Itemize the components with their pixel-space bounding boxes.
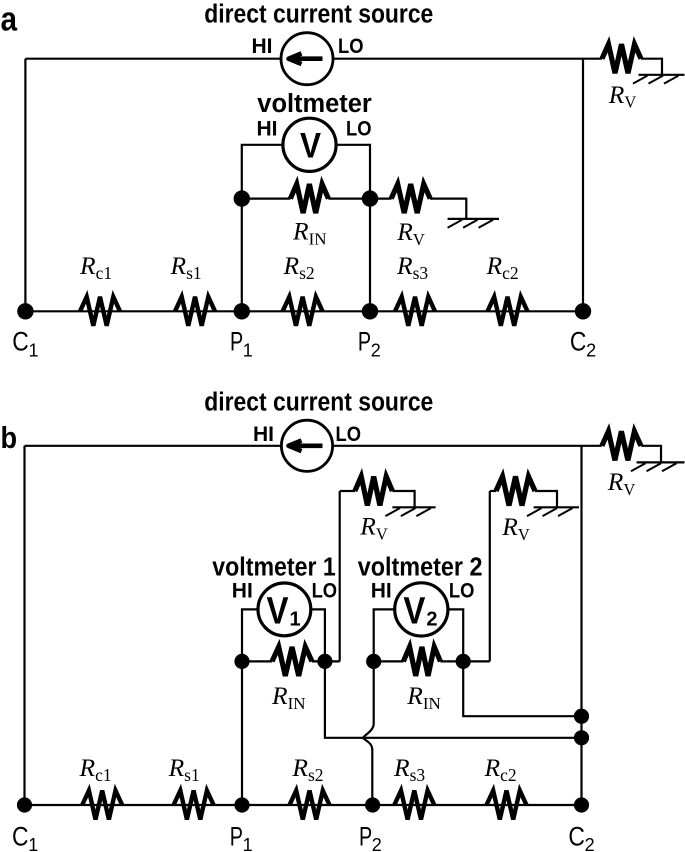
- wire: left vertical C1 (a): [24, 59, 26, 312]
- svg-text:V: V: [300, 127, 322, 166]
- svg-text:HI: HI: [257, 118, 278, 141]
- node V2 HI dot: [366, 654, 381, 669]
- voltmeter U2 (a): [283, 118, 336, 171]
- svg-text:2: 2: [371, 341, 381, 361]
- wire: V1 LO lead: [310, 609, 325, 661]
- svg-text:HI: HI: [252, 35, 273, 58]
- wire: voltmeter HI lead (a): [242, 145, 284, 199]
- svg-text:HI: HI: [371, 579, 392, 602]
- resistor RIN (a): [290, 184, 328, 213]
- svg-text:HI: HI: [253, 423, 274, 446]
- wire: right vertical C2 (b): [580, 446, 582, 805]
- current source U1 (a) with left arrow: [281, 33, 333, 85]
- wire: RV1 vertical (b): [339, 491, 341, 661]
- wire: P2 vertical (a): [369, 199, 371, 312]
- wire: V2 HI down to P2 with crossover jog: [363, 661, 374, 805]
- node C1 (a): [17, 303, 33, 319]
- svg-text:1: 1: [28, 835, 38, 852]
- svg-text:2: 2: [426, 609, 437, 631]
- node P2 (a): [362, 303, 378, 319]
- wire: top rail to RV (a): [583, 58, 602, 60]
- svg-text:2: 2: [586, 341, 596, 361]
- node V1 HI dot: [234, 654, 249, 669]
- wire: V2 LO lead: [446, 609, 463, 661]
- svg-text:a: a: [1, 1, 18, 39]
- wire: top rail to RV (b): [582, 445, 602, 447]
- wire: voltmeter LO lead (a): [336, 145, 370, 199]
- resistor RV mid (a): [391, 184, 430, 213]
- svg-text:LO: LO: [346, 118, 372, 141]
- wire: bottom rail (a): [25, 310, 583, 312]
- wire: RV2 to ground (b): [535, 491, 557, 507]
- wire: RV to ground (a): [430, 199, 466, 219]
- voltmeter V2 circle: [395, 583, 448, 636]
- resistor Rc2 (a): [488, 297, 528, 326]
- resistor Rs3 (b): [394, 791, 434, 820]
- node P1 (b): [234, 797, 249, 812]
- resistor Rs3 (a): [395, 297, 435, 326]
- svg-text:1: 1: [243, 835, 253, 852]
- wire: top rail (a): [25, 58, 583, 60]
- resistor RV2 (b): [496, 477, 535, 506]
- wire: RV top to ground (a): [641, 59, 662, 75]
- node junction dot upper right column: [574, 709, 589, 724]
- svg-text:LO: LO: [449, 579, 475, 602]
- svg-text:voltmeter: voltmeter: [257, 90, 372, 118]
- ground (RV1 b): [385, 507, 435, 516]
- wire: RV top to ground (b): [641, 446, 661, 463]
- wire: RIN1 right + stub to RV1: [312, 660, 340, 662]
- svg-text:2: 2: [585, 835, 595, 852]
- resistor Rc1 (b): [82, 791, 122, 820]
- node C2 (b): [574, 797, 589, 812]
- wire: P1 vertical (a): [241, 199, 243, 312]
- svg-text:voltmeter 1: voltmeter 1: [212, 554, 335, 582]
- svg-text:b: b: [1, 420, 18, 455]
- node P2 (b): [365, 797, 380, 812]
- resistor Rs1 (b): [174, 791, 214, 820]
- resistor Rc2 (b): [487, 791, 527, 820]
- wire: RV1 stub (b): [340, 490, 355, 492]
- svg-text:1: 1: [243, 341, 253, 361]
- resistor RV1 (b): [355, 477, 393, 506]
- node junction dot lower right column: [574, 730, 589, 745]
- svg-text:V: V: [267, 590, 290, 632]
- svg-text:C: C: [570, 327, 587, 357]
- svg-text:C: C: [12, 327, 29, 357]
- svg-text:direct current source: direct current source: [204, 388, 433, 416]
- svg-text:C: C: [12, 821, 29, 851]
- ground (top right a): [633, 75, 685, 84]
- svg-text:LO: LO: [336, 423, 362, 446]
- node C2 (a): [575, 303, 591, 319]
- wire: RV2 vertical (b): [489, 491, 491, 661]
- wire: V2 LO down and right to C2 column: [463, 661, 581, 716]
- svg-text:P: P: [230, 821, 243, 851]
- ground (top right b): [631, 462, 685, 471]
- node C1 (b): [17, 797, 32, 812]
- wire: left vertical C1 (b): [23, 446, 25, 805]
- wire: V1 LO down and right to C2 column: [325, 661, 582, 737]
- svg-text:HI: HI: [232, 579, 253, 602]
- node P2 junction dot (a): [362, 190, 378, 206]
- wire: V2 HI lead: [374, 609, 396, 661]
- svg-text:voltmeter 2: voltmeter 2: [358, 554, 483, 582]
- resistor Rs2 (a): [283, 297, 323, 326]
- wire: V1 HI to P1: [241, 661, 243, 805]
- wire: RIN row right (a): [328, 198, 370, 200]
- wire: RIN2 right + stub to RV2: [440, 660, 489, 662]
- wire: P2 to RV (a): [370, 198, 392, 200]
- svg-text:1: 1: [290, 609, 301, 631]
- wire: V1 HI lead: [242, 609, 260, 661]
- svg-text:LO: LO: [312, 579, 338, 602]
- resistor RIN2 (b): [403, 647, 440, 676]
- svg-text:P: P: [358, 327, 371, 357]
- wire: RV1 to ground (b): [392, 491, 414, 507]
- node V2 LO dot: [456, 654, 471, 669]
- resistor RV top (b): [602, 431, 641, 460]
- svg-text:P: P: [230, 327, 243, 357]
- resistor Rc1 (a): [80, 297, 120, 326]
- node P1 junction dot (a): [234, 190, 250, 206]
- wire: right vertical C2 (a): [582, 59, 584, 312]
- wire: RV2 stub (b): [490, 490, 496, 492]
- svg-text:C: C: [568, 821, 585, 851]
- node V1 LO dot: [317, 654, 332, 669]
- svg-text:P: P: [359, 821, 372, 851]
- svg-text:direct current source: direct current source: [204, 1, 433, 29]
- svg-text:2: 2: [372, 835, 382, 852]
- resistor RIN1 (b): [272, 647, 312, 676]
- node P1 (a): [234, 303, 250, 319]
- wire: RIN1 row: [242, 660, 272, 662]
- wire: RIN2 row: [374, 660, 404, 662]
- wire: top rail (b): [25, 445, 582, 447]
- resistor Rs1 (a): [175, 297, 215, 326]
- ground (RV2 b): [527, 507, 579, 516]
- wire: RIN row left (a): [242, 198, 291, 200]
- current source U3 (b) with left arrow: [281, 420, 332, 471]
- wire: bottom rail (b): [25, 804, 582, 806]
- voltmeter V1 circle: [258, 583, 311, 636]
- svg-text:V: V: [403, 590, 426, 632]
- ground (mid a): [448, 219, 499, 228]
- resistor RV top (a): [602, 44, 641, 73]
- resistor Rs2 (b): [290, 791, 330, 820]
- svg-text:1: 1: [29, 341, 39, 361]
- svg-text:LO: LO: [338, 35, 364, 58]
